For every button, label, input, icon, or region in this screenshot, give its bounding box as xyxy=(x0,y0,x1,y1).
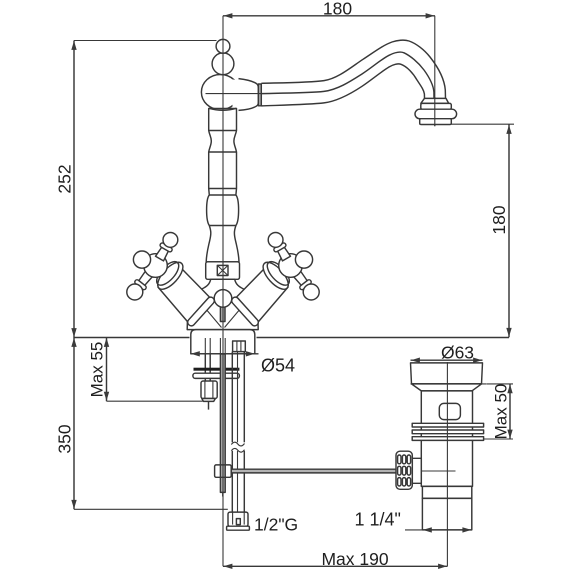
rubber gasket xyxy=(194,368,240,371)
hose break squiggle xyxy=(231,442,244,452)
column joint line 4 xyxy=(209,194,236,196)
column joint line 2 xyxy=(209,151,237,153)
hex boss in base xyxy=(233,341,246,352)
supply shank right edge xyxy=(243,352,245,443)
supply connector lip xyxy=(227,526,250,530)
extension of 180 through outlet xyxy=(434,97,436,126)
extension line right of top 180 through spout outlet xyxy=(434,16,436,126)
drain neck taper xyxy=(412,384,482,391)
spout bottom edge xyxy=(261,64,424,106)
right handle cone end collar xyxy=(230,296,259,328)
svg-text:Ø63: Ø63 xyxy=(441,342,474,362)
svg-text:Ø54: Ø54 xyxy=(261,356,295,376)
drain washer 3 xyxy=(412,437,483,441)
right handle top ball xyxy=(268,233,283,248)
column joint line 5 xyxy=(209,225,236,227)
left handle top ball xyxy=(163,233,178,248)
spout axis line in ball xyxy=(206,93,262,95)
left handle top arm neck xyxy=(156,242,171,261)
drain overflow hole xyxy=(439,403,460,419)
right handle axis line xyxy=(225,276,269,328)
dimension Max 50: bottom extension xyxy=(484,438,513,440)
left handle valve cone xyxy=(158,265,209,322)
drain washer 1 xyxy=(412,423,483,427)
faucet base xyxy=(191,330,255,354)
pop-up knob stem xyxy=(220,307,225,322)
supply connector body xyxy=(228,512,248,526)
dimension Max 55: bottom extension line xyxy=(107,400,203,402)
spout top edge xyxy=(261,40,445,98)
dimension 252/350 shared line xyxy=(73,41,75,510)
rod line inside drain xyxy=(421,470,455,472)
drain body xyxy=(421,391,472,487)
pop-up rod xyxy=(220,354,225,492)
dimension Max 190: line xyxy=(223,565,448,567)
countertop line left xyxy=(74,337,190,339)
spout outlet torus xyxy=(415,109,457,119)
svg-text:350: 350 xyxy=(55,424,75,453)
right handle bottom ball xyxy=(303,284,319,300)
left stud xyxy=(204,354,206,381)
spout middle line xyxy=(261,52,434,98)
countertop line right xyxy=(257,337,510,339)
diverter square xyxy=(217,265,228,275)
right handle hub xyxy=(279,254,303,278)
right handle top arm neck xyxy=(275,242,290,261)
dimension 1 1/4: arrows xyxy=(423,527,432,532)
svg-text:Max 50: Max 50 xyxy=(492,384,511,440)
column joint line 3 xyxy=(209,188,237,190)
left handle bottom ball xyxy=(127,284,143,300)
right handle bottom arm collar xyxy=(299,279,312,291)
drain centerline xyxy=(446,362,448,566)
left handle skirt inner rim xyxy=(153,258,183,289)
dimension 252: top extension line xyxy=(74,40,217,42)
spout collar ring xyxy=(258,84,261,106)
svg-text:252: 252 xyxy=(55,164,75,193)
dimension D63: line xyxy=(411,359,483,361)
spout outlet upper ring xyxy=(421,103,452,109)
faucet finial large ball xyxy=(212,53,234,75)
supply connector inner lines xyxy=(232,512,234,525)
pop-up knob ball xyxy=(214,290,232,308)
drain washer 2 xyxy=(412,430,483,434)
nut taper xyxy=(202,399,216,402)
spout outlet taper xyxy=(421,98,449,103)
svg-text:Max 55: Max 55 xyxy=(88,342,107,398)
drain tailpiece xyxy=(422,498,471,530)
supply connector notch xyxy=(236,519,240,525)
right handle skirt xyxy=(259,258,293,293)
faucet body ball xyxy=(201,75,239,110)
spout collar fill xyxy=(233,79,258,110)
spout collar top edge xyxy=(239,79,259,111)
svg-text:1 1/4": 1 1/4" xyxy=(355,510,401,530)
dimension 350: bottom extension line xyxy=(74,508,228,510)
dimension Max 55: line xyxy=(106,338,108,402)
left handle hub xyxy=(144,254,168,278)
supply shank left edge xyxy=(231,352,233,443)
washer plate xyxy=(193,373,240,378)
dimension 180 right: extension line at spout outlet xyxy=(452,123,515,125)
right handle outer ball xyxy=(295,251,312,268)
left handle bottom arm neck xyxy=(136,269,155,290)
left handle cone end collar xyxy=(186,296,215,328)
knurled nut link xyxy=(412,458,421,483)
pop-up rod lines in base xyxy=(219,338,221,354)
dimension D54: line xyxy=(190,353,258,355)
svg-text:180: 180 xyxy=(489,205,509,234)
faucet body skirt xyxy=(187,279,258,329)
linkage bar xyxy=(231,469,397,473)
right handle valve cone xyxy=(237,265,288,322)
left handle outer ball xyxy=(133,251,150,268)
svg-text:1/2"G: 1/2"G xyxy=(254,515,298,535)
knurl lobes xyxy=(398,455,401,464)
spout outlet bottom cap xyxy=(420,119,452,125)
knurled wheel xyxy=(396,451,412,489)
svg-text:Max 190: Max 190 xyxy=(321,549,388,569)
left handle top arm collar xyxy=(159,242,173,252)
right handle skirt inner rim xyxy=(263,258,293,289)
right handle top arm collar xyxy=(273,242,287,252)
faucet column outline xyxy=(206,109,239,262)
pop-up rod tip xyxy=(222,492,224,496)
rod clamp block xyxy=(215,465,232,477)
column joint line 1 xyxy=(209,130,237,132)
stud tip xyxy=(208,401,210,409)
left handle skirt xyxy=(153,258,187,293)
diverter X xyxy=(217,265,228,275)
column joint arc top xyxy=(209,108,236,110)
faucet finial small ball xyxy=(216,39,230,53)
right handle bottom arm neck xyxy=(292,269,311,290)
left handle axis line xyxy=(178,276,222,328)
drain tailpiece collar xyxy=(422,486,471,498)
supply shank middle line xyxy=(237,352,239,443)
faucet centerline xyxy=(222,16,224,567)
mounting nut xyxy=(201,381,217,399)
dimension 1 1/4: leader xyxy=(405,529,422,531)
dimension 180 top: line xyxy=(223,15,435,17)
left shank lines in base xyxy=(204,338,206,354)
dimension Max 50: top extension xyxy=(487,383,514,385)
dimension 180 right: line xyxy=(508,125,510,338)
drain flange bottom line xyxy=(411,383,487,385)
left handle bottom arm collar xyxy=(134,279,147,291)
drain flange xyxy=(411,363,483,384)
dimension Max 50: line xyxy=(509,384,511,439)
valve body collar box xyxy=(206,262,240,280)
